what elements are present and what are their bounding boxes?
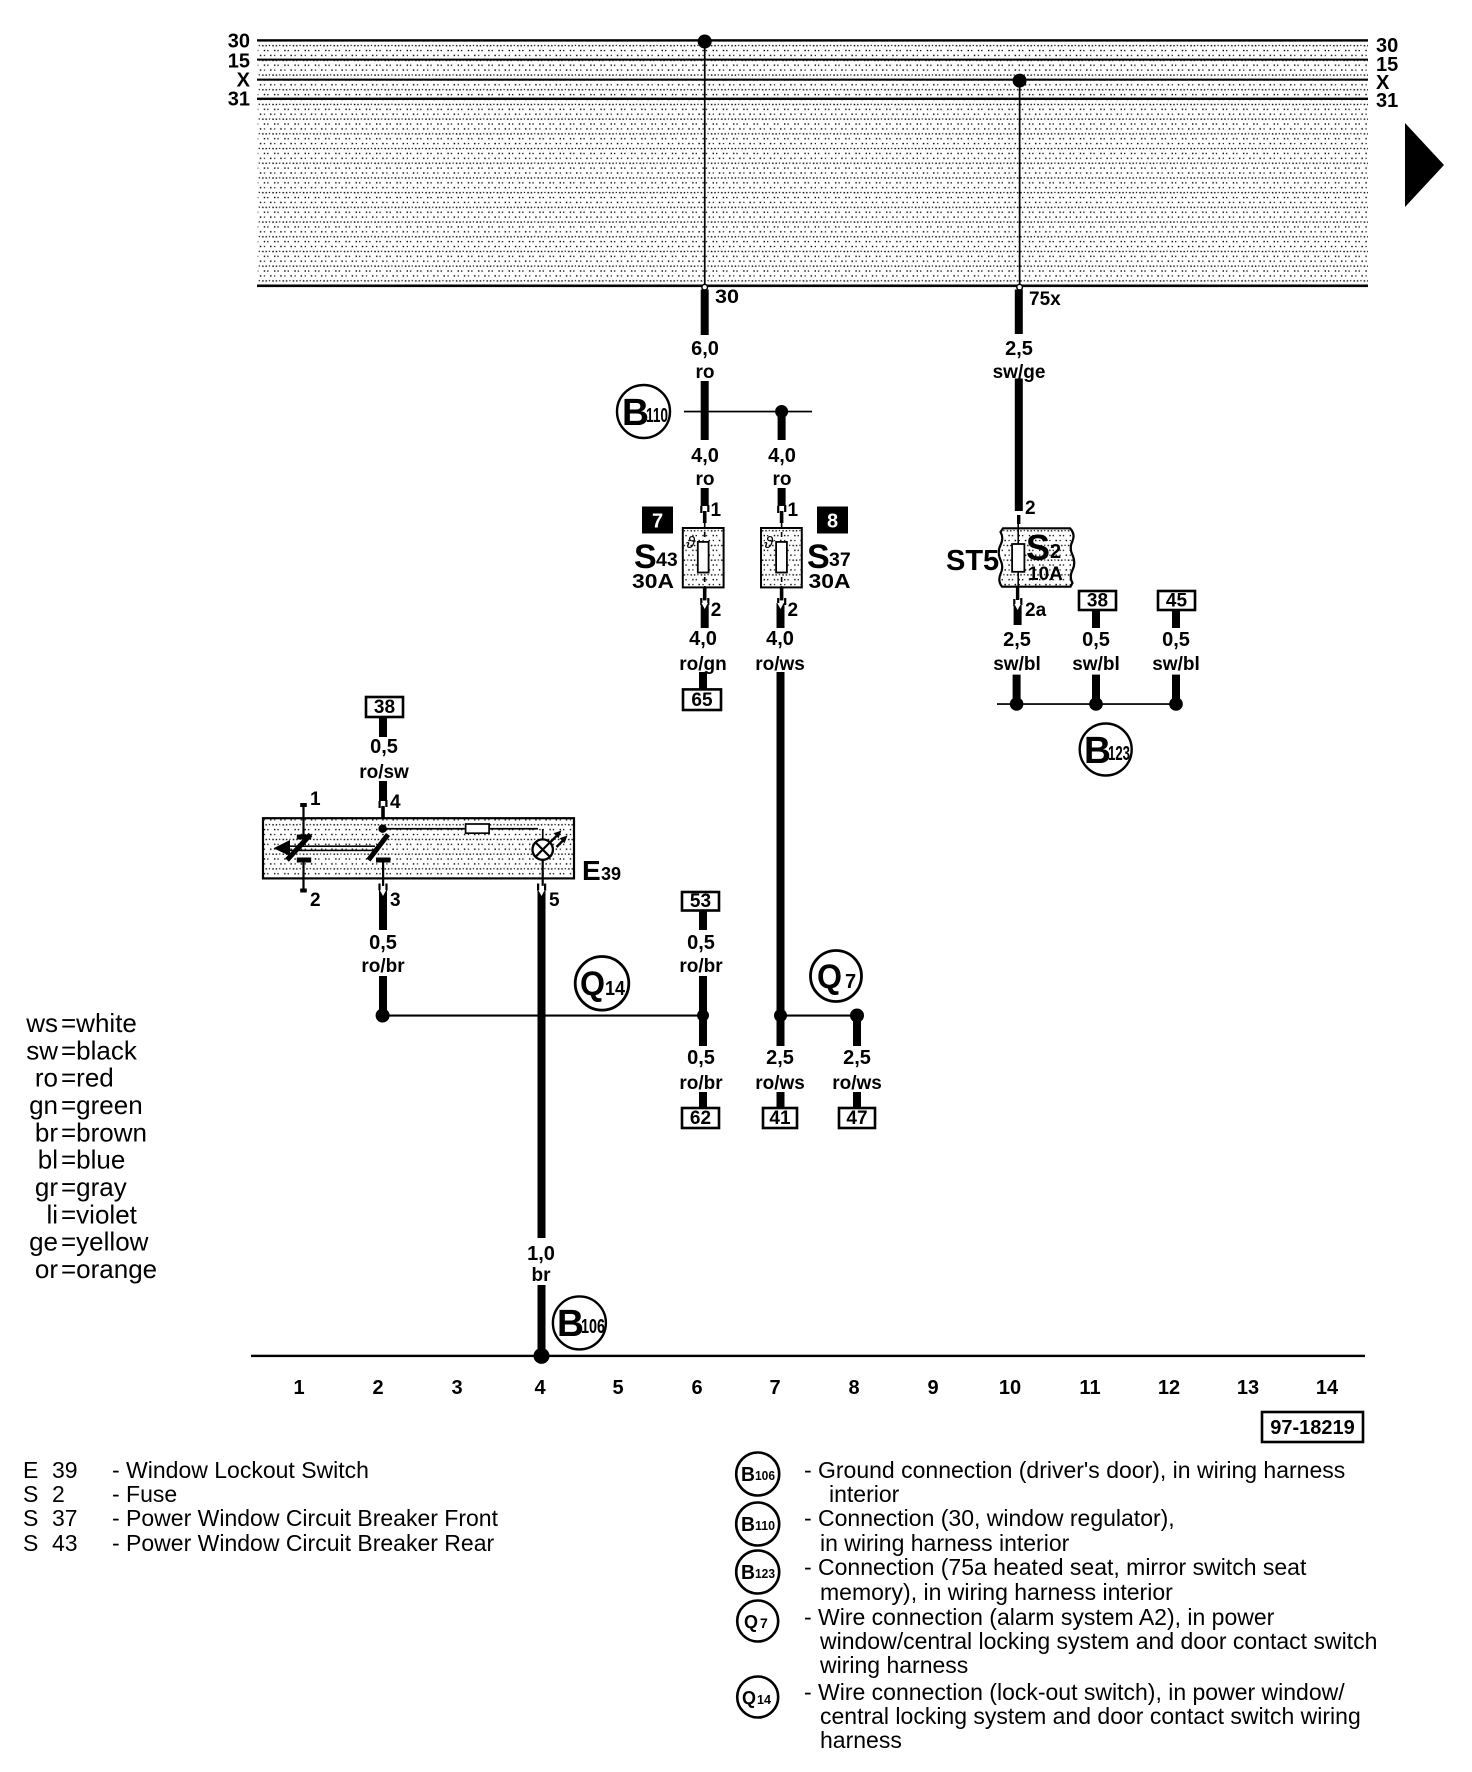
E39 designator [582,855,621,886]
svg-text:43: 43 [52,1530,78,1556]
svg-text:3: 3 [390,890,401,911]
wire labels 0,5 ro/br lower [679,1047,723,1094]
svg-text:14: 14 [1316,1377,1339,1399]
legend circle Q14 [737,1677,778,1718]
svg-text:S: S [23,1505,38,1531]
ground connection B106 text [557,1303,605,1345]
svg-text:3: 3 [451,1377,462,1399]
svg-text:Wire connection (lock-out swit: Wire connection (lock-out switch), in po… [818,1679,1345,1705]
svg-text:30: 30 [228,31,250,53]
svg-text:S: S [1026,527,1050,568]
svg-text:1: 1 [310,789,321,810]
svg-text:5: 5 [612,1377,623,1399]
svg-text:37: 37 [829,549,851,571]
E39 pin 5 lead [537,860,546,891]
svg-text:14: 14 [757,1692,772,1707]
wire labels 0,5 ro/sw [359,736,409,783]
Q7 junction dot left [774,1009,787,1022]
svg-text:=white: =white [61,1008,137,1038]
terminal box 65 [683,689,721,711]
svg-text:53: 53 [690,891,711,912]
E39 lockout arrow [274,840,291,856]
svg-text:ge: ge [29,1227,58,1257]
wire from S2 pin 2a [1014,604,1022,625]
svg-text:75x: 75x [1029,289,1061,310]
wire below box 53 [699,911,707,931]
svg-text:Q: Q [744,1612,758,1632]
svg-text:gn: gn [29,1090,58,1120]
wire connection Q14 text [580,965,626,1003]
svg-text:8: 8 [827,511,838,533]
svg-text:ro: ro [696,362,715,383]
S2 designator [1026,527,1061,568]
svg-text:ro/br: ro/br [679,956,723,977]
svg-text:Wire connection (alarm system: Wire connection (alarm system A2), in po… [818,1604,1275,1630]
wire 30 inside band [698,35,712,291]
svg-text:ro: ro [696,469,715,490]
wire from S43 pin 2 [701,603,709,628]
ground junction dot B106 [534,1348,550,1364]
legend text Q14 [804,1679,1361,1753]
svg-text:gr: gr [35,1172,58,1202]
svg-text:ro/ws: ro/ws [832,1073,882,1094]
svg-text:B: B [741,1562,755,1584]
wire connection Q7 text [817,958,856,996]
wire labels 4,0 ro/ws [755,628,805,675]
bus line 31 [257,98,1368,100]
svg-text:123: 123 [1108,743,1130,765]
S2 pin 2a terminal [1013,587,1022,606]
svg-text:0,5: 0,5 [1162,629,1190,651]
svg-text:ro/sw: ro/sw [359,762,409,783]
svg-text:30A: 30A [809,571,851,593]
svg-text:S: S [23,1530,38,1556]
terminal box 62 [682,1108,719,1129]
Q14 junction dot left [376,1009,390,1023]
svg-text:ro/gn: ro/gn [679,654,727,675]
wire labels 0,5 sw/bl [1072,629,1120,675]
svg-text:br: br [35,1117,58,1147]
Q14 junction dot right [697,1010,709,1022]
component legend S2 row [23,1481,177,1507]
svg-text:-: - [804,1505,812,1531]
wire to terminal 41 [777,1092,785,1108]
svg-text:2: 2 [711,600,722,621]
E39 indicator lamp [533,839,553,859]
svg-text:Q: Q [742,1688,756,1708]
svg-text:2a: 2a [1025,600,1047,621]
svg-text:8: 8 [848,1377,859,1399]
wire segment to breakers [701,381,709,440]
wire to terminal 47 [853,1092,861,1108]
svg-text:97-18219: 97-18219 [1270,1417,1355,1439]
svg-text:ST5: ST5 [946,545,999,577]
wire connection Q7 circle [811,951,862,1002]
svg-text:4,0: 4,0 [689,628,717,650]
wire to E39 pin 4 [379,781,387,801]
svg-text:41: 41 [769,1108,791,1129]
E39 pin 2 lead [300,862,307,893]
wire connection Q14 circle [575,957,629,1011]
E39 mechanical linkage double line [285,845,375,851]
grid numbers 1-14 [293,1377,1339,1399]
svg-text:30: 30 [715,287,739,308]
svg-text:ro: ro [773,469,792,490]
svg-text:4,0: 4,0 [768,445,796,467]
long wire ro/ws down [777,672,785,1046]
svg-text:=gray: =gray [61,1172,127,1202]
E39 pin 3 fixed contact [376,858,390,863]
svg-text:62: 62 [690,1108,711,1129]
svg-text:4: 4 [390,792,401,813]
svg-text:47: 47 [846,1108,867,1129]
svg-text:30A: 30A [632,571,674,593]
S37 designator [807,538,851,576]
wire to B123 line center [1092,675,1100,704]
legend text B106 [804,1457,1345,1507]
terminal box 53 [682,891,719,912]
wire from E39 pin 3 [379,890,387,930]
terminal box 47 [839,1108,875,1129]
B110 branch line [684,411,812,413]
wire to B123 line [1013,675,1021,704]
circuit breaker S37 body [761,528,802,587]
svg-text:B: B [741,1464,755,1486]
svg-text:-: - [804,1457,812,1483]
svg-text:=green: =green [61,1090,143,1120]
wire labels 1,0 br [527,1243,555,1286]
svg-text:0,5: 0,5 [1082,629,1110,651]
wire labels 0,5 sw/bl right [1152,629,1200,675]
fuse S2 body [999,528,1075,586]
E39 lamp feed line [383,828,538,830]
svg-text:39: 39 [601,864,621,884]
svg-text:11: 11 [1079,1377,1100,1399]
S2 fuse element [1012,544,1024,572]
S43 pin 1 terminal [700,505,709,523]
svg-text:12: 12 [1158,1377,1180,1399]
S37 pin 2 terminal [777,587,786,605]
svg-text:Connection (30, window regulat: Connection (30, window regulator), [818,1505,1175,1531]
legend text Q7 [804,1604,1377,1678]
svg-text:sw/bl: sw/bl [1072,654,1120,675]
svg-text:0,5: 0,5 [687,932,715,954]
wire below box 38 [1092,610,1100,628]
wire 75x inside band [1013,74,1027,290]
svg-text:- Power Window Circuit Breaker: - Power Window Circuit Breaker Front [112,1505,499,1531]
svg-text:- Power Window Circuit Breaker: - Power Window Circuit Breaker Rear [112,1530,495,1556]
svg-text:45: 45 [1166,591,1188,612]
E39 pin 1 lead [300,803,307,836]
E39 pin 3 lead [378,862,387,891]
svg-text:2: 2 [1050,541,1061,563]
svg-text:E: E [582,855,601,886]
wire to S37 pin 1 [778,488,786,506]
svg-text:wiring harness: wiring harness [819,1652,968,1678]
component legend E39 row [23,1457,369,1483]
svg-text:ro/br: ro/br [361,956,405,977]
svg-text:5: 5 [549,890,560,911]
svg-text:interior: interior [829,1481,900,1507]
E39 switch blade left [287,835,311,861]
svg-text:central locking system and doo: central locking system and door contact … [820,1703,1361,1729]
svg-text:6,0: 6,0 [691,338,719,360]
svg-text:38: 38 [374,697,395,718]
power rail band (stippled) [257,41,1368,287]
wire labels 0,5 ro/br mid [679,932,723,977]
svg-text:=violet: =violet [61,1199,138,1229]
svg-text:B: B [622,392,649,434]
wire 6,0 ro upper segment [701,290,709,336]
wire to terminal 65 [699,672,707,689]
wire to Q14 junction [379,976,387,1016]
svg-text:37: 37 [52,1505,78,1531]
svg-text:2,5: 2,5 [766,1047,794,1069]
S43 internal dashed wire [704,523,706,589]
E39 switch blade right [369,835,389,861]
svg-text:1: 1 [293,1377,304,1399]
legend text B110 [804,1505,1175,1556]
svg-text:B: B [1084,730,1111,772]
svg-text:2,5: 2,5 [1005,338,1033,360]
Q7 junction dot right [850,1009,864,1023]
svg-text:31: 31 [228,89,250,111]
svg-text:39: 39 [52,1457,78,1483]
E39 junction dot pin 4 [378,825,386,833]
S37 internal dashed wire [781,523,783,589]
svg-text:31: 31 [1376,90,1398,112]
svg-text:4,0: 4,0 [766,628,794,650]
E39 pin 2 fixed contact [297,858,311,863]
wire to S43 pin 1 [701,488,709,506]
E39 pin 4 terminal [379,800,388,819]
wire labels 2,5 sw/ge [993,338,1046,383]
window lockout switch E39 body [263,818,574,878]
svg-text:4,0: 4,0 [691,445,719,467]
wire to B123 line right [1172,675,1180,704]
terminal box 45 [1158,591,1195,612]
svg-text:window/central locking system: window/central locking system and door c… [819,1628,1377,1654]
bottom ground rail [251,1355,1365,1357]
svg-text:7: 7 [652,511,663,533]
svg-text:110: 110 [755,1518,775,1533]
svg-text:ϑ: ϑ [686,533,696,552]
svg-text:2,5: 2,5 [1003,629,1031,651]
S2 internal wire [1017,523,1019,600]
svg-text:106: 106 [581,1316,605,1338]
svg-text:=black: =black [61,1035,138,1065]
svg-text:10A: 10A [1028,564,1063,585]
svg-text:110: 110 [646,405,668,427]
svg-text:2: 2 [1025,498,1036,519]
svg-text:E: E [23,1457,38,1483]
wire below box 38 top [379,717,387,737]
svg-text:harness: harness [820,1727,902,1753]
S43 breaker element [698,542,709,573]
svg-text:=orange: =orange [61,1254,157,1284]
Q7 connection line [781,1015,858,1017]
svg-text:=red: =red [61,1063,114,1093]
wire labels 2,5 ro/ws left [755,1047,805,1094]
bus line X [257,79,1368,81]
svg-text:2: 2 [310,890,321,911]
svg-text:123: 123 [755,1566,775,1581]
E39 lamp light arrows [551,831,568,848]
drawing number box 97-18219 [1262,1412,1363,1442]
svg-text:1: 1 [788,500,799,521]
bus line 30 [257,39,1368,41]
svg-text:-: - [804,1604,812,1630]
S43 pin 2 terminal [700,587,709,605]
svg-text:7: 7 [769,1377,780,1399]
svg-text:li: li [46,1199,58,1229]
svg-text:14: 14 [605,978,626,1000]
wire through Q14 to terminal 62 [699,976,707,1046]
svg-text:2: 2 [372,1377,383,1399]
svg-text:ro/ws: ro/ws [755,654,805,675]
wire below Q7 right [853,1016,861,1047]
wire to terminal 62 [699,1092,707,1108]
S43 designator [634,538,678,576]
svg-text:7: 7 [760,1615,768,1631]
svg-text:ro/ws: ro/ws [755,1073,805,1094]
S37 pin 1 terminal [777,505,786,523]
wire labels 2,5 ro/ws right [832,1047,882,1094]
wire color legend [25,1008,157,1284]
svg-text:106: 106 [755,1468,775,1483]
svg-text:=blue: =blue [61,1145,125,1175]
svg-text:65: 65 [691,690,713,711]
wire below box 45 [1172,610,1180,628]
svg-text:ws: ws [25,1008,58,1038]
svg-text:4: 4 [534,1377,546,1399]
svg-text:9: 9 [927,1377,938,1399]
svg-text:or: or [35,1254,58,1284]
svg-text:ϑ: ϑ [764,533,774,552]
svg-text:1: 1 [711,500,722,521]
wire 4,0 ro right branch [778,412,786,441]
E39 lamp feed drop [542,829,544,840]
wire to fuse S2 [1015,379,1023,512]
legend text B123 [804,1554,1307,1605]
svg-text:38: 38 [1087,591,1108,612]
component legend S37 row [23,1505,499,1531]
svg-text:10: 10 [999,1377,1021,1399]
svg-text:memory), in wiring harness int: memory), in wiring harness interior [820,1579,1173,1605]
svg-text:2,5: 2,5 [843,1047,871,1069]
svg-text:13: 13 [1237,1377,1259,1399]
svg-text:ro: ro [35,1063,58,1093]
B123 junction dots [1010,697,1183,711]
wire labels 0,5 ro/br left [361,932,405,977]
S37 position tag 8 [817,507,848,534]
direction arrow [1405,123,1444,207]
svg-text:=yellow: =yellow [61,1227,149,1257]
svg-text:- Window Lockout Switch: - Window Lockout Switch [112,1457,369,1483]
svg-text:=brown: =brown [61,1117,147,1147]
svg-text:Connection (75a heated seat, m: Connection (75a heated seat, mirror swit… [818,1554,1307,1580]
terminal box 38 top [366,697,403,718]
E39 resistor [466,824,490,833]
svg-text:1,0: 1,0 [527,1243,555,1265]
svg-text:Ground connection (driver's do: Ground connection (driver's door), in wi… [818,1457,1345,1483]
B123 connection line [997,703,1180,705]
junction dot B110 branch [775,405,788,418]
svg-text:-: - [804,1554,812,1580]
S43 position tag 7 [642,507,673,534]
wire labels 4,0 ro/gn [679,628,727,675]
svg-text:sw: sw [26,1035,58,1065]
wire from S37 pin 2 [777,603,785,628]
svg-text:- Fuse: - Fuse [112,1481,177,1507]
S37 breaker element [776,542,787,573]
svg-text:6: 6 [691,1377,702,1399]
svg-text:2: 2 [52,1481,65,1507]
wire to ground point [538,1285,546,1356]
legend circle Q7 [737,1601,778,1642]
svg-text:sw/bl: sw/bl [993,654,1041,675]
bus line 15 [257,59,1368,61]
svg-text:-: - [804,1679,812,1705]
svg-text:2: 2 [788,600,799,621]
svg-text:S: S [23,1481,38,1507]
svg-text:bl: bl [38,1145,58,1175]
svg-text:br: br [532,1265,552,1286]
legend circle B123 [736,1551,779,1594]
wire 2,5 sw/ge upper segment [1015,290,1023,335]
svg-text:7: 7 [845,971,856,993]
svg-text:Q: Q [817,958,842,996]
svg-text:Q: Q [580,965,605,1003]
wire labels 2,5 sw/bl [993,629,1041,675]
legend circle B106 [736,1453,779,1496]
connection B110 circle [617,385,670,438]
svg-text:B: B [741,1514,755,1536]
component legend S43 row [23,1530,495,1556]
svg-text:sw/bl: sw/bl [1152,654,1200,675]
ground wire from E39 pin 5 [538,890,546,1238]
ground connection B106 circle [553,1296,606,1349]
S2 pin 2 stub [1017,515,1020,524]
terminal box 41 [763,1108,797,1129]
terminal box 38 right [1079,591,1116,612]
svg-text:0,5: 0,5 [370,736,398,758]
svg-text:in wiring harness interior: in wiring harness interior [820,1530,1070,1556]
svg-text:ro/br: ro/br [679,1073,723,1094]
connection B123 circle [1080,724,1132,776]
connection B123 text [1084,730,1130,772]
svg-text:43: 43 [656,549,678,571]
circuit breaker S43 body [683,528,724,587]
svg-text:0,5: 0,5 [687,1047,715,1069]
svg-text:0,5: 0,5 [369,932,397,954]
Q14 connection line [383,1015,703,1017]
svg-text:B: B [557,1303,584,1345]
E39 pin 1 fixed contact [297,835,311,840]
legend circle B110 [736,1503,779,1546]
